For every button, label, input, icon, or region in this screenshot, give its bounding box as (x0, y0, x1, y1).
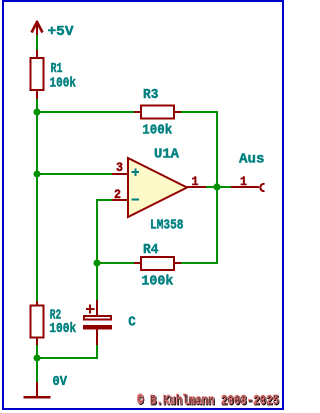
capacitor C (83, 300, 112, 345)
op-amp U1A (128, 158, 187, 217)
wire left rail R1 to R2 (36, 99, 38, 302)
wire pin 2 to feedback (97, 200, 112, 263)
svg-text:2: 2 (114, 187, 121, 202)
svg-text:+5V: +5V (48, 24, 75, 40)
svg-text:0V: 0V (53, 374, 68, 390)
junction at non-inverting input (34, 171, 41, 178)
svg-text:© B.Kuhlmann 2008-2025: © B.Kuhlmann 2008-2025 (137, 393, 279, 409)
junction ground node (34, 355, 41, 362)
svg-text:1: 1 (192, 174, 199, 189)
svg-text:LM358: LM358 (150, 218, 184, 234)
resistor R4 (134, 257, 181, 270)
svg-text:Aus: Aus (239, 151, 265, 167)
wire R4 to feedback rail (181, 187, 217, 263)
svg-text:U1A: U1A (154, 147, 180, 163)
svg-text:100k: 100k (141, 274, 173, 290)
pin 3 stub (112, 173, 128, 175)
junction node at R3 tap (34, 109, 41, 116)
wire to R3 (37, 111, 135, 113)
wire R3 to feedback rail (181, 112, 217, 187)
resistor R2 (31, 301, 44, 345)
ground 0V (24, 382, 51, 397)
svg-text:R3: R3 (143, 87, 159, 103)
svg-text:3: 3 (116, 160, 123, 175)
wire pin1 to feedback junction (206, 186, 217, 188)
wire capacitor to ground rail (37, 345, 97, 358)
wire to op-amp pin 3 (37, 173, 112, 175)
wire junction to R4 (97, 262, 135, 264)
svg-text:100k: 100k (49, 321, 76, 337)
pin 1 stub (187, 186, 206, 188)
supply +5V (32, 21, 43, 36)
wire R2 to ground junction (36, 345, 38, 359)
wire ground node down (36, 358, 38, 383)
svg-text:C: C (128, 315, 136, 331)
junction output node (213, 183, 220, 190)
svg-text:R4: R4 (143, 242, 159, 258)
svg-text:1: 1 (240, 174, 247, 189)
wire feedback node down to capacitor (96, 263, 98, 301)
wire supply to R1 (36, 35, 38, 51)
svg-text:100k: 100k (142, 123, 172, 139)
output terminal Aus (231, 184, 265, 191)
wire output junction to terminal (217, 186, 232, 188)
svg-text:100k: 100k (50, 76, 77, 92)
junction at R4 tap (94, 260, 101, 267)
pin 2 stub (112, 199, 128, 201)
resistor R3 (134, 106, 181, 119)
resistor R1 (31, 50, 44, 99)
